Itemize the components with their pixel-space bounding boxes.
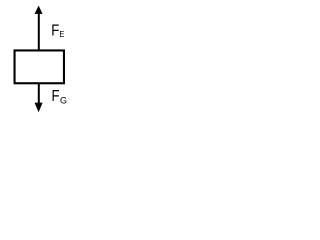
arrowhead: downward force arrow [35, 103, 43, 113]
svg-text:E: E [59, 29, 64, 39]
background [0, 0, 86, 129]
node: label F_E [51, 23, 64, 40]
node: label F_G [52, 88, 68, 107]
svg-text:G: G [60, 96, 67, 107]
svg-text:F: F [51, 23, 59, 40]
arrowhead: upward force arrow [35, 6, 43, 14]
wire: upward force arrow stem [38, 13, 40, 50]
wire: downward force arrow stem [38, 83, 40, 103]
svg-text:F: F [52, 88, 60, 105]
box: mass rectangle [15, 50, 64, 83]
